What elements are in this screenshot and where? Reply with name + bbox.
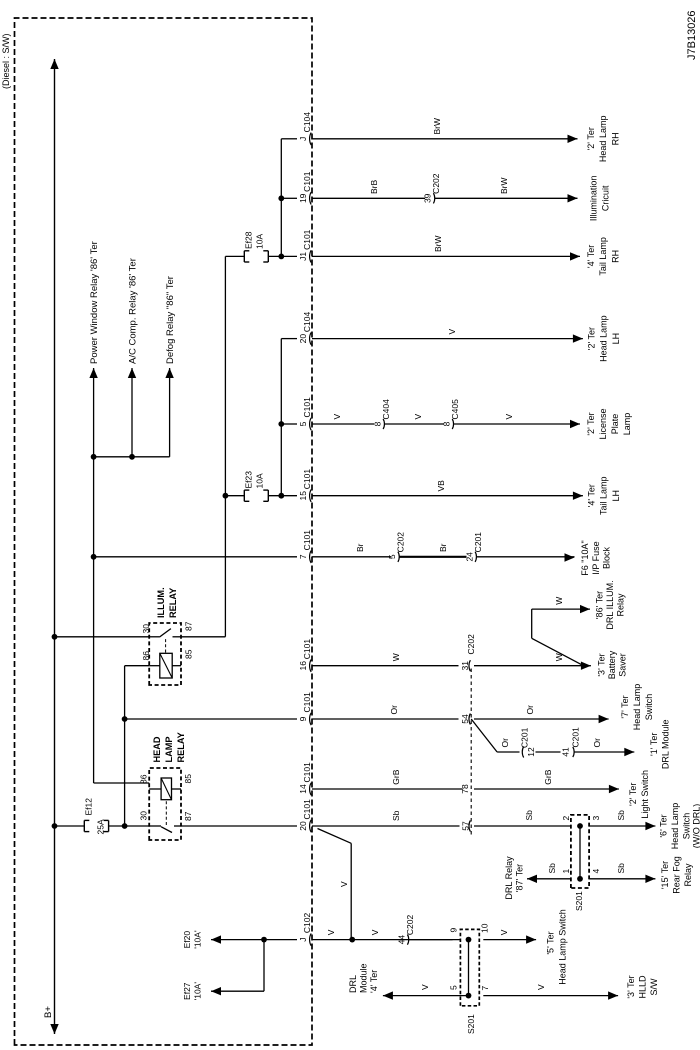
svg-text:'87' Ter: '87' Ter (515, 864, 525, 892)
head lamp relay actuating link dashed (165, 800, 167, 825)
wire to fuse Ef23 (225, 495, 244, 497)
arrow and label '4' Ter Tail Lamp RH (570, 252, 580, 260)
svg-text:C202: C202 (396, 532, 406, 553)
wire Sb branch down to rear fog relay (589, 878, 655, 880)
svg-text:'4' Ter: '4' Ter (586, 245, 596, 268)
wire V branch up to DRL module (383, 995, 469, 997)
wire V C404 to C405 (385, 423, 444, 425)
wire V C104-20 to head lamp LH (312, 338, 583, 340)
svg-text:RELAY: RELAY (168, 588, 178, 618)
arrow and label '4' Ter Tail Lamp LH (573, 492, 583, 500)
inline connector C201 pin 12 (522, 747, 523, 758)
branch wire horizontal (531, 609, 533, 638)
svg-text:Head Lamp Switch: Head Lamp Switch (558, 909, 568, 985)
wire Sb : C101-20 down to splice S201 (312, 825, 460, 827)
wire coil bottom pin 85 to box bottom (172, 665, 181, 667)
svg-text:(Diesel : S/W): (Diesel : S/W) (1, 33, 11, 89)
rail from illum relay 87 to fuses Ef23 Ef28 (224, 256, 226, 636)
junction Ef28 rail3 (278, 254, 284, 260)
junction in S201 on Sb branch (577, 876, 583, 882)
svg-text:J1: J1 (298, 252, 308, 261)
svg-text:C101: C101 (302, 799, 312, 820)
wire rail junction to connector C101 pin 9 (125, 718, 297, 720)
svg-text:4: 4 (591, 869, 601, 874)
svg-text:C104: C104 (302, 312, 312, 333)
svg-text:Ef20: Ef20 (182, 931, 192, 949)
arrow to A/C comp relay (128, 368, 136, 378)
wire B+ to illum relay 30 (55, 636, 150, 638)
junction A/C comp relay feed (129, 454, 135, 460)
svg-text:RH: RH (610, 250, 620, 263)
node B+ : battery feed bus (54, 59, 56, 1034)
wire Or pin54 to head lamp switch (474, 718, 609, 720)
svg-text:Or: Or (389, 705, 399, 715)
wire W pin31 to battery saver (474, 665, 591, 667)
head lamp relay K1 dashed box (149, 768, 181, 840)
branch diagonal from C101-20 to V-wire rail (318, 829, 352, 844)
svg-text:16: 16 (298, 661, 308, 671)
arrow B+ left end (50, 1024, 58, 1034)
svg-text:GrB: GrB (391, 769, 401, 784)
svg-text:J: J (298, 137, 308, 141)
wire rail down to connector C101 pin 7 (94, 556, 297, 558)
splice link (468, 940, 470, 996)
wire rail to fuse Ef28 (225, 255, 244, 257)
wire drop to connector C104 pin J (281, 138, 297, 140)
wire fuse Ef28 to connector C101 pin J1 (268, 255, 297, 257)
wire to A/C comp relay arrow (131, 368, 133, 457)
svg-text:B+: B+ (43, 1006, 54, 1018)
junction in S201 on V wire (466, 937, 472, 943)
svg-text:Head Lamp: Head Lamp (599, 315, 609, 362)
svg-text:DRL: DRL (348, 975, 358, 993)
svg-text:C104: C104 (302, 112, 312, 133)
svg-text:C201: C201 (473, 532, 483, 553)
svg-text:C101: C101 (302, 397, 312, 418)
svg-text:Sb: Sb (547, 863, 557, 874)
svg-text:I/P Fuse: I/P Fuse (591, 541, 601, 574)
branch diagonal to DRL illum relay (532, 638, 584, 665)
arrow and label '3' Ter Battery Saver (581, 662, 591, 670)
arrow and label '6' Ter Head Lamp Switch (W/O DRL) (645, 822, 655, 830)
svg-text:F6 "10A": F6 "10A" (580, 540, 590, 575)
svg-text:C101: C101 (302, 229, 312, 250)
junction to connector C101 pin 9 wire (122, 716, 128, 722)
svg-text:25A: 25A (96, 819, 106, 834)
svg-text:Br: Br (438, 543, 448, 552)
arrow to DRL relay (527, 875, 537, 883)
junction Ef27 branch (261, 937, 267, 943)
svg-text:BrW: BrW (432, 118, 442, 135)
svg-text:8: 8 (372, 421, 382, 426)
svg-text:Ef27: Ef27 (182, 982, 192, 1000)
svg-text:C202: C202 (466, 634, 476, 655)
wire Sb branch up to DRL relay (527, 878, 571, 880)
rail Ef28 to tail lamp RH / head lamp RH wires (280, 139, 282, 257)
svg-text:C102: C102 (302, 913, 312, 934)
arrow and label '2' Ter Light Switch (609, 785, 619, 793)
wire drop to connector C101 pin 19 (281, 197, 297, 199)
wire BrW C104-J to head lamp RH (312, 138, 578, 140)
junction in S201 on V branch (466, 993, 472, 999)
svg-text:V: V (499, 929, 509, 935)
wire V C202-44 to S201 (409, 939, 453, 941)
svg-text:S/W: S/W (649, 978, 659, 996)
svg-text:Or: Or (525, 705, 535, 715)
svg-text:'5' Ter: '5' Ter (546, 931, 556, 954)
svg-text:W: W (554, 597, 564, 605)
svg-text:HLLD: HLLD (638, 975, 648, 999)
svg-text:86: 86 (141, 651, 151, 661)
wire Or branch to C201 pin 12 (497, 751, 519, 753)
svg-text:A/C Comp. Relay '86' Ter: A/C Comp. Relay '86' Ter (128, 258, 139, 364)
svg-text:Head Lamp: Head Lamp (632, 684, 642, 731)
svg-text:14: 14 (298, 784, 308, 794)
svg-text:C202: C202 (405, 915, 415, 936)
wire Ef20 to connector C102 pin J (211, 939, 297, 941)
svg-text:85: 85 (184, 649, 194, 659)
wire coil top to relay box top pin 86 (149, 788, 161, 790)
svg-text:20: 20 (298, 334, 308, 344)
svg-text:BrW: BrW (499, 177, 509, 194)
wire drop to connector C104 pin 20 (281, 338, 297, 340)
wire GrB C101-14 to pin 78 (312, 788, 463, 790)
wire drop to connector C101 pin 5 (281, 423, 297, 425)
wire Sb S201 to head lamp switch W/O DRL (589, 825, 655, 827)
wire F6 feed rail (93, 368, 95, 783)
svg-text:Or: Or (500, 738, 510, 748)
svg-text:Tail Lamp: Tail Lamp (599, 476, 609, 515)
junction rail to C101 pin 7 wire (91, 554, 97, 560)
svg-text:87: 87 (183, 811, 193, 821)
arrow into F6 fuse block (565, 553, 575, 561)
svg-text:Switch: Switch (682, 813, 692, 840)
wire relay feed vertical (94, 456, 170, 458)
svg-text:V: V (332, 414, 342, 420)
svg-text:10A: 10A (255, 473, 265, 488)
svg-text:8: 8 (441, 421, 451, 426)
svg-text:Light Switch: Light Switch (640, 770, 650, 819)
svg-text:GrB: GrB (543, 769, 553, 784)
svg-text:15: 15 (298, 491, 308, 501)
svg-text:Plate: Plate (610, 414, 620, 435)
svg-text:Module: Module (359, 963, 369, 993)
wire illum relay coil 86 drop (125, 665, 150, 667)
svg-text:Sb: Sb (524, 810, 534, 821)
arrow and label '3' Ter HLLD S/W (608, 991, 618, 999)
svg-text:DRL Module: DRL Module (661, 719, 671, 769)
illum relay K2 dashed box (149, 623, 181, 685)
fuse Ef28 10A (243, 251, 245, 262)
connector line C202 dashed (470, 666, 472, 835)
svg-text:C101: C101 (302, 639, 312, 660)
svg-text:C101: C101 (302, 762, 312, 783)
svg-text:LAMP: LAMP (164, 736, 174, 762)
wire V branch down to HLLD switch (483, 995, 618, 997)
wire Sb pin57 to S201 (474, 825, 571, 827)
arrow to defog relay (165, 368, 173, 378)
wire fuse Ef23 to connector C101 pin 15 (268, 495, 297, 497)
wire C201-12 to C201-41 (536, 751, 561, 753)
svg-text:9: 9 (298, 716, 308, 721)
arrow and label Illumination Cricuit (568, 194, 578, 202)
svg-text:ILLUM.: ILLUM. (156, 587, 166, 618)
svg-text:30: 30 (139, 811, 149, 821)
svg-text:87: 87 (184, 621, 194, 631)
wire BrW C202-39 to illumination circuit (435, 197, 578, 199)
svg-text:2: 2 (561, 816, 571, 821)
wire B+ bus to fuse Ef12 (55, 825, 85, 827)
wire to F6 fuse block (477, 556, 575, 558)
svg-text:S201: S201 (466, 1014, 476, 1034)
junction rail2 to C101 pin 5 wire (278, 421, 284, 427)
arrow and label '2' Ter License Plate Lamp (570, 420, 580, 428)
arrow and label '2' Ter Head Lamp RH (568, 135, 578, 143)
svg-text:85: 85 (183, 774, 193, 784)
svg-text:VB: VB (436, 480, 446, 492)
svg-text:1: 1 (561, 869, 571, 874)
splice S201 dashed box on V wires (460, 929, 479, 1005)
svg-text:Saver: Saver (618, 653, 628, 677)
wire V S201 to head lamp switch (483, 939, 536, 941)
svg-text:Rear Fog: Rear Fog (672, 856, 682, 894)
svg-text:'2' Ter: '2' Ter (628, 783, 638, 806)
head lamp relay contact 30-87 (149, 825, 161, 827)
svg-text:BrB: BrB (369, 180, 379, 195)
wire Br C202-5 to C201-24 (heavy) (400, 556, 467, 558)
svg-text:'7' Ter: '7' Ter (620, 695, 630, 718)
branch diagonal from pin 54 to DRL module wire (471, 719, 497, 752)
svg-text:Ef23: Ef23 (244, 471, 254, 489)
svg-text:S201: S201 (574, 891, 584, 911)
diagram frame: dashed harness boundary box (15, 18, 313, 1045)
svg-text:'10A': '10A' (193, 930, 203, 949)
svg-text:Ef28: Ef28 (244, 231, 254, 249)
svg-text:5: 5 (449, 985, 459, 990)
wire head lamp relay 87 to connector C101 pin 20 (181, 825, 297, 827)
wire coil top to box pin 86 (149, 665, 160, 667)
svg-text:RELAY: RELAY (176, 732, 186, 762)
svg-text:License: License (598, 408, 608, 439)
junction Ef23 rail2 (278, 493, 284, 499)
svg-text:Block: Block (602, 547, 612, 570)
svg-text:Sb: Sb (616, 810, 626, 821)
junction to V rail (349, 937, 355, 943)
svg-text:C101: C101 (302, 530, 312, 551)
wire Or C101-9 to C202 pin 54 (312, 718, 459, 720)
wire V C101-5 to C404 (312, 423, 374, 425)
svg-text:'3' Ter: '3' Ter (626, 975, 636, 998)
svg-text:C201: C201 (571, 727, 581, 748)
junction feeding illum relay coil rail (122, 823, 128, 829)
svg-text:Lamp: Lamp (622, 413, 632, 436)
wire W C101-16 to C202 pin 31 (312, 665, 459, 667)
svg-text:DRL ILLUM.: DRL ILLUM. (605, 580, 615, 629)
svg-text:Cricuit: Cricuit (601, 185, 611, 211)
svg-text:Head Lamp: Head Lamp (598, 116, 608, 163)
svg-text:C101: C101 (302, 692, 312, 713)
svg-text:41: 41 (561, 747, 571, 757)
arrow from fuse Ef27 (211, 987, 221, 995)
arrow and label '86' Ter DRL ILLUM. Relay (580, 605, 590, 613)
branch wire down to DRL illum relay arrow (532, 608, 590, 610)
svg-text:Ef12: Ef12 (84, 798, 94, 816)
wire GrB pin78 to light switch (474, 788, 619, 790)
svg-text:3: 3 (591, 816, 601, 821)
svg-text:C201: C201 (520, 727, 530, 748)
svg-text:Power Window Relay '86' Ter: Power Window Relay '86' Ter (89, 241, 100, 364)
fuse Ef23 10A (243, 490, 245, 501)
wire V C405 to license plate lamp (454, 423, 580, 425)
junction rail3 to C101 pin 19 wire (278, 195, 284, 201)
svg-text:RH: RH (610, 132, 620, 145)
junction rail to fuse Ef23 (223, 493, 229, 499)
junction in S201 on Sb wire (577, 823, 583, 829)
arrow bus right end (50, 59, 58, 69)
svg-text:C404: C404 (381, 399, 391, 420)
svg-text:V: V (447, 329, 457, 335)
arrow from fuse Ef20 (211, 935, 221, 943)
svg-text:'6' Ter: '6' Ter (659, 814, 669, 837)
corner drop to head lamp relay coil 86 (94, 782, 150, 784)
fuse Ef12 25A (83, 820, 85, 831)
wire to DRL module (574, 751, 635, 753)
svg-text:78: 78 (460, 784, 470, 794)
wire coil bottom pin 85 to box bottom (172, 788, 182, 790)
svg-text:C101: C101 (302, 469, 312, 490)
svg-text:HEAD: HEAD (152, 736, 162, 762)
svg-text:J7B13026: J7B13026 (686, 10, 698, 60)
svg-text:'3' Ter: '3' Ter (597, 653, 607, 676)
svg-text:V: V (420, 984, 430, 990)
illum relay contact 30-87 (149, 636, 159, 638)
svg-text:'15' Ter: '15' Ter (660, 861, 670, 889)
rail Ef23 to head lamp LH / license lamp wires (280, 339, 282, 496)
svg-text:V: V (339, 881, 349, 887)
V rail toward Sb wire (350, 843, 352, 939)
arrow and label '15' Ter Rear Fog Relay (645, 875, 655, 883)
wire BrB C101-19 to C202-39 (312, 197, 425, 199)
svg-text:7: 7 (480, 986, 490, 991)
svg-text:'4' Ter: '4' Ter (369, 970, 379, 993)
svg-text:'2' Ter: '2' Ter (586, 127, 596, 150)
svg-text:'4' Ter: '4' Ter (586, 484, 596, 507)
svg-text:BrW: BrW (433, 235, 443, 252)
head lamp relay coil 86-85 (161, 778, 171, 800)
svg-text:Battery: Battery (607, 650, 617, 679)
svg-text:Illumination: Illumination (589, 176, 599, 222)
svg-text:Defog Relay "86" Ter: Defog Relay "86" Ter (165, 276, 176, 364)
wire VB C101-15 to tail lamp LH (312, 495, 583, 497)
wire rail from Ef12 junction to illum relay coil 86 (124, 666, 126, 826)
svg-text:(W/O DRL): (W/O DRL) (692, 804, 700, 849)
svg-text:DRL Relay: DRL Relay (504, 856, 514, 900)
svg-text:'2' Ter: '2' Ter (586, 327, 596, 350)
svg-text:7: 7 (298, 554, 308, 559)
svg-text:Tail Lamp: Tail Lamp (598, 237, 608, 276)
svg-text:V: V (504, 414, 514, 420)
svg-text:Head Lamp: Head Lamp (670, 803, 680, 850)
illum relay actuating link dashed (165, 639, 167, 653)
svg-text:Sb: Sb (616, 863, 626, 874)
svg-text:Relay: Relay (683, 863, 693, 887)
branch to Ef27 arrow (263, 940, 265, 992)
svg-text:Switch: Switch (644, 694, 654, 721)
svg-text:5: 5 (387, 554, 397, 559)
arrow and label '7' Ter Head Lamp Switch (599, 715, 609, 723)
svg-text:V: V (370, 929, 380, 935)
svg-text:LH: LH (611, 333, 621, 345)
svg-text:Sb: Sb (391, 810, 401, 821)
svg-text:5: 5 (298, 421, 308, 426)
svg-text:Or: Or (592, 738, 602, 748)
junction on B+ bus feeding fuse Ef12 (52, 823, 58, 829)
svg-text:V: V (536, 984, 546, 990)
svg-text:W: W (391, 653, 401, 661)
svg-text:V: V (326, 929, 336, 935)
wire to defog relay arrow (169, 368, 171, 457)
junction rail to relay feed arrows (91, 454, 97, 460)
svg-text:10A: 10A (255, 234, 265, 249)
svg-text:C405: C405 (450, 399, 460, 420)
arrow and label '1' Ter DRL Module (624, 748, 634, 756)
wire BrW C101-J1 to tail lamp RH (312, 255, 580, 257)
illum relay coil 86-85 (160, 653, 172, 678)
svg-text:'86' Ter: '86' Ter (595, 591, 605, 619)
svg-text:30: 30 (141, 624, 151, 634)
svg-text:'2' Ter: '2' Ter (586, 412, 596, 435)
svg-text:19: 19 (298, 193, 308, 203)
arrow to power window relay (89, 368, 97, 378)
junction on B+ bus feeding illum relay pin 30 (52, 634, 58, 640)
splice link (579, 826, 581, 879)
svg-text:9: 9 (449, 928, 459, 933)
svg-text:C202: C202 (431, 173, 441, 194)
svg-text:J: J (298, 937, 308, 941)
svg-text:'10A': '10A' (193, 982, 203, 1001)
splice S201 dashed box on Sb wires (571, 815, 589, 888)
svg-text:LH: LH (611, 490, 621, 502)
svg-text:'1' Ter: '1' Ter (649, 733, 659, 756)
svg-text:C101: C101 (302, 171, 312, 192)
svg-text:V: V (413, 414, 423, 420)
wire illum relay 87 down to fused rail (181, 636, 225, 638)
svg-text:20: 20 (298, 821, 308, 831)
svg-text:10: 10 (480, 923, 490, 933)
svg-text:Relay: Relay (616, 593, 626, 617)
wire fuse Ef12 to head lamp relay pin 30 (109, 825, 150, 827)
arrow and label '2' Ter Head Lamp LH (573, 334, 583, 342)
svg-text:Br: Br (355, 543, 365, 552)
wire V C102-J down (312, 939, 460, 941)
wire Br C101-7 to C202 pin 5 (312, 556, 391, 558)
arrow to DRL module '4' Ter (383, 991, 393, 999)
arrow and label '5' Ter Head Lamp Switch (526, 935, 536, 943)
